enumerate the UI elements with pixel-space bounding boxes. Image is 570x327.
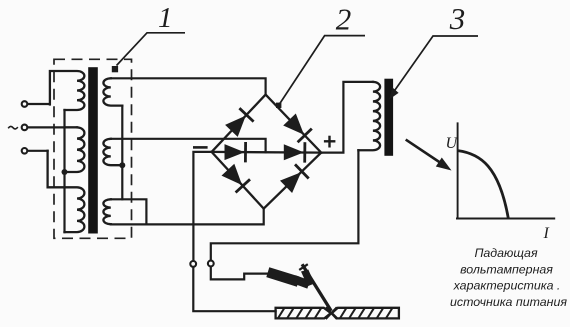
electrode holder jaw	[293, 275, 311, 288]
electrode holder body	[266, 267, 299, 287]
transformer T1 dashed enclosure	[54, 59, 132, 238]
AC input terminal a	[28, 103, 50, 105]
terminal circle c	[22, 148, 28, 154]
weld joint X	[326, 307, 337, 319]
svg-text:характеристика .: характеристика .	[453, 279, 561, 293]
AC tilde symbol	[8, 126, 18, 129]
svg-text:вольтамперная: вольтамперная	[460, 263, 553, 277]
graph X axis	[456, 218, 555, 220]
diode VD3	[222, 164, 243, 185]
transformer T1 core	[88, 67, 98, 233]
bridge middle rail	[212, 151, 322, 154]
terminal circle a	[22, 101, 28, 107]
wire S3 top to bottom bus	[111, 199, 147, 224]
workpiece right plate	[332, 308, 399, 319]
AC input terminal b	[28, 126, 77, 128]
minus sign	[193, 146, 208, 149]
svg-text:Падающая: Падающая	[474, 246, 538, 260]
junction primary tap	[62, 169, 68, 175]
graph curve	[458, 151, 509, 219]
graph arrow	[406, 140, 443, 165]
diode VD5	[225, 144, 245, 160]
wire secondary series link	[121, 106, 123, 200]
wire positive output to choke	[321, 82, 373, 153]
wire phase C to bridge bottom	[111, 209, 264, 225]
choke L winding	[358, 82, 380, 150]
electrode cap tick	[299, 264, 308, 270]
plus sign	[324, 140, 336, 142]
secondary winding S2	[103, 139, 122, 165]
svg-text:1: 1	[158, 2, 173, 34]
AC input terminal c	[28, 150, 47, 152]
secondary winding S1	[103, 78, 122, 105]
electrode	[302, 264, 331, 311]
svg-text:I: I	[543, 225, 550, 242]
primary winding W1	[50, 71, 85, 110]
rectifier bridge frame	[212, 95, 322, 209]
diode VD1	[225, 116, 246, 137]
workpiece right hatch	[340, 308, 347, 319]
svg-text:2: 2	[336, 1, 352, 36]
primary winding W2	[65, 127, 85, 172]
wire phase b tap	[65, 126, 78, 128]
diode VD4	[280, 172, 301, 193]
wire phase A to bridge top	[111, 78, 266, 94]
wire primary series link	[63, 110, 65, 232]
terminal positive	[208, 261, 214, 267]
primary winding W3	[48, 151, 85, 232]
diode VD2	[283, 114, 304, 135]
secondary winding S3	[103, 199, 110, 224]
wire negative output	[193, 152, 275, 311]
terminal circle b	[22, 125, 28, 131]
choke core	[384, 79, 393, 156]
diode VD6	[284, 144, 304, 160]
wire phase B to bridge mid	[111, 139, 266, 153]
wire choke to electrode holder	[211, 150, 359, 279]
svg-text:U: U	[446, 135, 459, 152]
workpiece left plate	[276, 308, 331, 319]
workpiece left hatch	[278, 308, 285, 319]
svg-text:источника питания: источника питания	[450, 295, 567, 309]
junction secondary tap	[119, 162, 125, 168]
svg-text:3: 3	[449, 1, 466, 36]
graph Y axis	[457, 122, 459, 218]
terminal negative	[190, 261, 196, 267]
